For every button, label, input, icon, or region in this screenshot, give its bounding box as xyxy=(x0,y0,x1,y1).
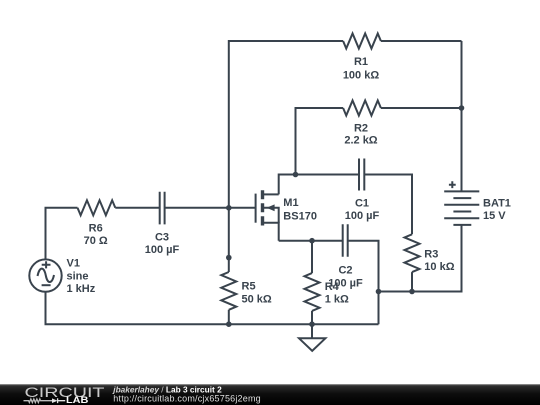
svg-text:LAB: LAB xyxy=(66,395,89,405)
source V1 sine xyxy=(38,269,55,282)
capacitor C2 xyxy=(343,224,348,256)
svg-text:BS170: BS170 xyxy=(283,210,317,222)
wire R4 top lead xyxy=(311,241,313,273)
ground stub xyxy=(311,324,313,338)
svg-text:1 kΩ: 1 kΩ xyxy=(325,293,349,305)
svg-text:100 µF: 100 µF xyxy=(145,244,180,256)
svg-text:10 kΩ: 10 kΩ xyxy=(424,261,454,273)
node drain junction xyxy=(293,172,299,178)
svg-text:BAT1: BAT1 xyxy=(483,197,511,209)
svg-text:C1: C1 xyxy=(355,198,369,210)
node C2 ground rail xyxy=(376,289,382,295)
wire R5 bottom lead xyxy=(228,310,230,324)
wire R4 bottom lead xyxy=(311,311,313,324)
node R3 bottom xyxy=(409,289,415,295)
wire R6 to C3 left plate xyxy=(115,207,159,209)
source V1 circle xyxy=(29,259,61,291)
svg-text:V1: V1 xyxy=(67,258,80,270)
svg-text:100 kΩ: 100 kΩ xyxy=(343,69,380,81)
source V1 minus sign xyxy=(42,284,51,286)
footer bar xyxy=(0,384,540,405)
transistor M1 channel bars xyxy=(261,190,264,225)
resistor R1 xyxy=(343,34,381,49)
logo squiggle wire xyxy=(24,399,53,403)
transistor M1 arrow xyxy=(267,204,275,211)
resistor R6 xyxy=(78,200,116,215)
wire source node to C2 left plate xyxy=(279,240,343,242)
svg-text:R1: R1 xyxy=(354,56,368,68)
wire C1 right plate to R3 top xyxy=(364,175,412,235)
node R4 top xyxy=(309,238,315,244)
wire drain lead up and right to C1 left plate xyxy=(279,175,359,195)
wire R2 right to V+ rail xyxy=(381,107,462,109)
battery BAT1 plates xyxy=(444,191,479,225)
svg-text:sine: sine xyxy=(67,270,89,282)
wire drain node up-left rail to R2 xyxy=(296,108,344,175)
svg-text:2.2 kΩ: 2.2 kΩ xyxy=(344,134,377,146)
wire V+ rail vertical down to battery + xyxy=(461,41,463,191)
transistor M1 body line xyxy=(264,208,279,223)
resistor R3 xyxy=(405,234,420,272)
wire gate node down to R5 xyxy=(228,208,230,272)
transistor M1 drain lead xyxy=(264,193,279,195)
svg-text:R3: R3 xyxy=(424,249,438,261)
svg-text:1 kHz: 1 kHz xyxy=(67,283,96,295)
node gate junction xyxy=(226,205,232,211)
node R5 bottom xyxy=(226,321,232,327)
svg-text:R2: R2 xyxy=(354,122,368,134)
node R2 V+ rail xyxy=(459,105,465,111)
transistor M1 gate bar xyxy=(255,194,257,223)
svg-text:C3: C3 xyxy=(155,232,169,244)
svg-text:R5: R5 xyxy=(242,281,256,293)
resistor R4 xyxy=(305,273,320,311)
logo diode xyxy=(52,398,58,403)
svg-text:M1: M1 xyxy=(283,197,298,209)
ground symbol xyxy=(299,338,325,351)
svg-text:R4: R4 xyxy=(325,281,340,293)
svg-text:50 kΩ: 50 kΩ xyxy=(242,293,272,305)
svg-text:15 V: 15 V xyxy=(483,210,506,222)
battery plus sign xyxy=(449,181,456,188)
node R5 top xyxy=(226,255,232,261)
svg-text:R6: R6 xyxy=(89,223,103,235)
svg-text:C2: C2 xyxy=(338,264,352,276)
svg-text:100 µF: 100 µF xyxy=(345,210,380,222)
wire ground rail to battery bottom xyxy=(379,225,462,292)
wire R3 bottom lead xyxy=(411,272,413,291)
svg-text:http://circuitlab.com/cjx65756: http://circuitlab.com/cjx65756j2emg xyxy=(113,393,261,403)
wire C2 right plate down to ground rail xyxy=(348,241,379,325)
capacitor C3 xyxy=(160,192,165,225)
source V1 plus sign xyxy=(42,261,51,268)
node ground junction xyxy=(309,321,315,327)
wire V1 top to R6 xyxy=(46,208,78,260)
wire bottom ground rail xyxy=(46,292,379,324)
wire gate-node up to top rail and across to R1 xyxy=(229,41,343,208)
transistor M1 source lead xyxy=(264,223,279,241)
transistor M1 gate lead xyxy=(229,207,256,209)
svg-text:70 Ω: 70 Ω xyxy=(84,235,108,247)
capacitor C1 xyxy=(359,159,364,191)
wire R1 right to V+ rail xyxy=(381,40,462,42)
resistor R5 xyxy=(221,272,236,310)
wire C3 right plate to gate node xyxy=(165,207,229,209)
resistor R2 xyxy=(343,101,381,116)
